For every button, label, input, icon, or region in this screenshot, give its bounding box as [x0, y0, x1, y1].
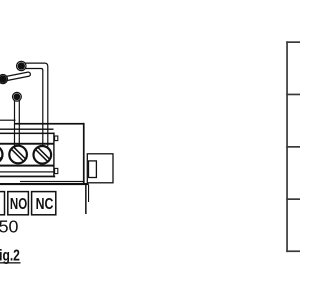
- mounting stem line (long): [85, 183, 87, 214]
- table row line 4: [286, 198, 300, 200]
- body bottom main line: [0, 183, 89, 185]
- terminal screw 3: [34, 146, 52, 164]
- terminal label box NC: [32, 192, 56, 215]
- switch body top edge (left segment): [0, 120, 16, 121]
- table left border: [286, 41, 288, 252]
- table row line 2: [286, 94, 300, 96]
- contact terminal (middle): [13, 92, 22, 101]
- terminal strip inner bottom edge: [0, 165, 54, 167]
- svg-text:ig.2: ig.2: [0, 246, 20, 264]
- svg-text:50: 50: [0, 217, 19, 237]
- strip side tab (lower): [55, 168, 58, 173]
- mounting stem line (short): [88, 184, 89, 202]
- body bottom thin line: [20, 181, 85, 182]
- terminal screw 2: [9, 146, 27, 164]
- table row line 1: [286, 41, 300, 43]
- contact terminal (top): [17, 61, 26, 70]
- contact terminal (left, cut off): [0, 75, 8, 84]
- lever arm (switch contact lever): [3, 74, 28, 79]
- terminal strip lower thin line: [0, 171, 54, 172]
- terminal label box NO: [8, 192, 29, 215]
- wire (top contact to right screw, inner line): [26, 69, 43, 147]
- terminal strip bottom edge: [0, 176, 55, 178]
- wire (middle contact down to center screw, right line): [18, 100, 20, 146]
- plunger actuator inner box: [89, 161, 97, 178]
- switch body right edge: [83, 123, 85, 183]
- table row line 3: [286, 146, 300, 148]
- caption underline: [0, 262, 21, 263]
- table row line 5: [286, 250, 300, 252]
- terminal label box (cut off): [0, 192, 5, 215]
- strip side tab (upper): [55, 136, 58, 141]
- terminal screw 1 (cut off at left): [0, 146, 3, 164]
- svg-text:NC: NC: [36, 194, 54, 212]
- svg-text:NO: NO: [10, 195, 28, 212]
- wire (top contact to right screw, outer line): [25, 63, 48, 146]
- switch body top edge (main): [14, 123, 84, 125]
- wire (middle contact down to center screw, left line): [14, 100, 16, 146]
- plunger actuator outer box: [87, 154, 113, 183]
- terminal strip top edge: [0, 133, 55, 135]
- terminal strip inner top edge: [0, 143, 54, 145]
- switch body inner ledge: [0, 129, 54, 130]
- terminal strip right edge: [53, 133, 54, 178]
